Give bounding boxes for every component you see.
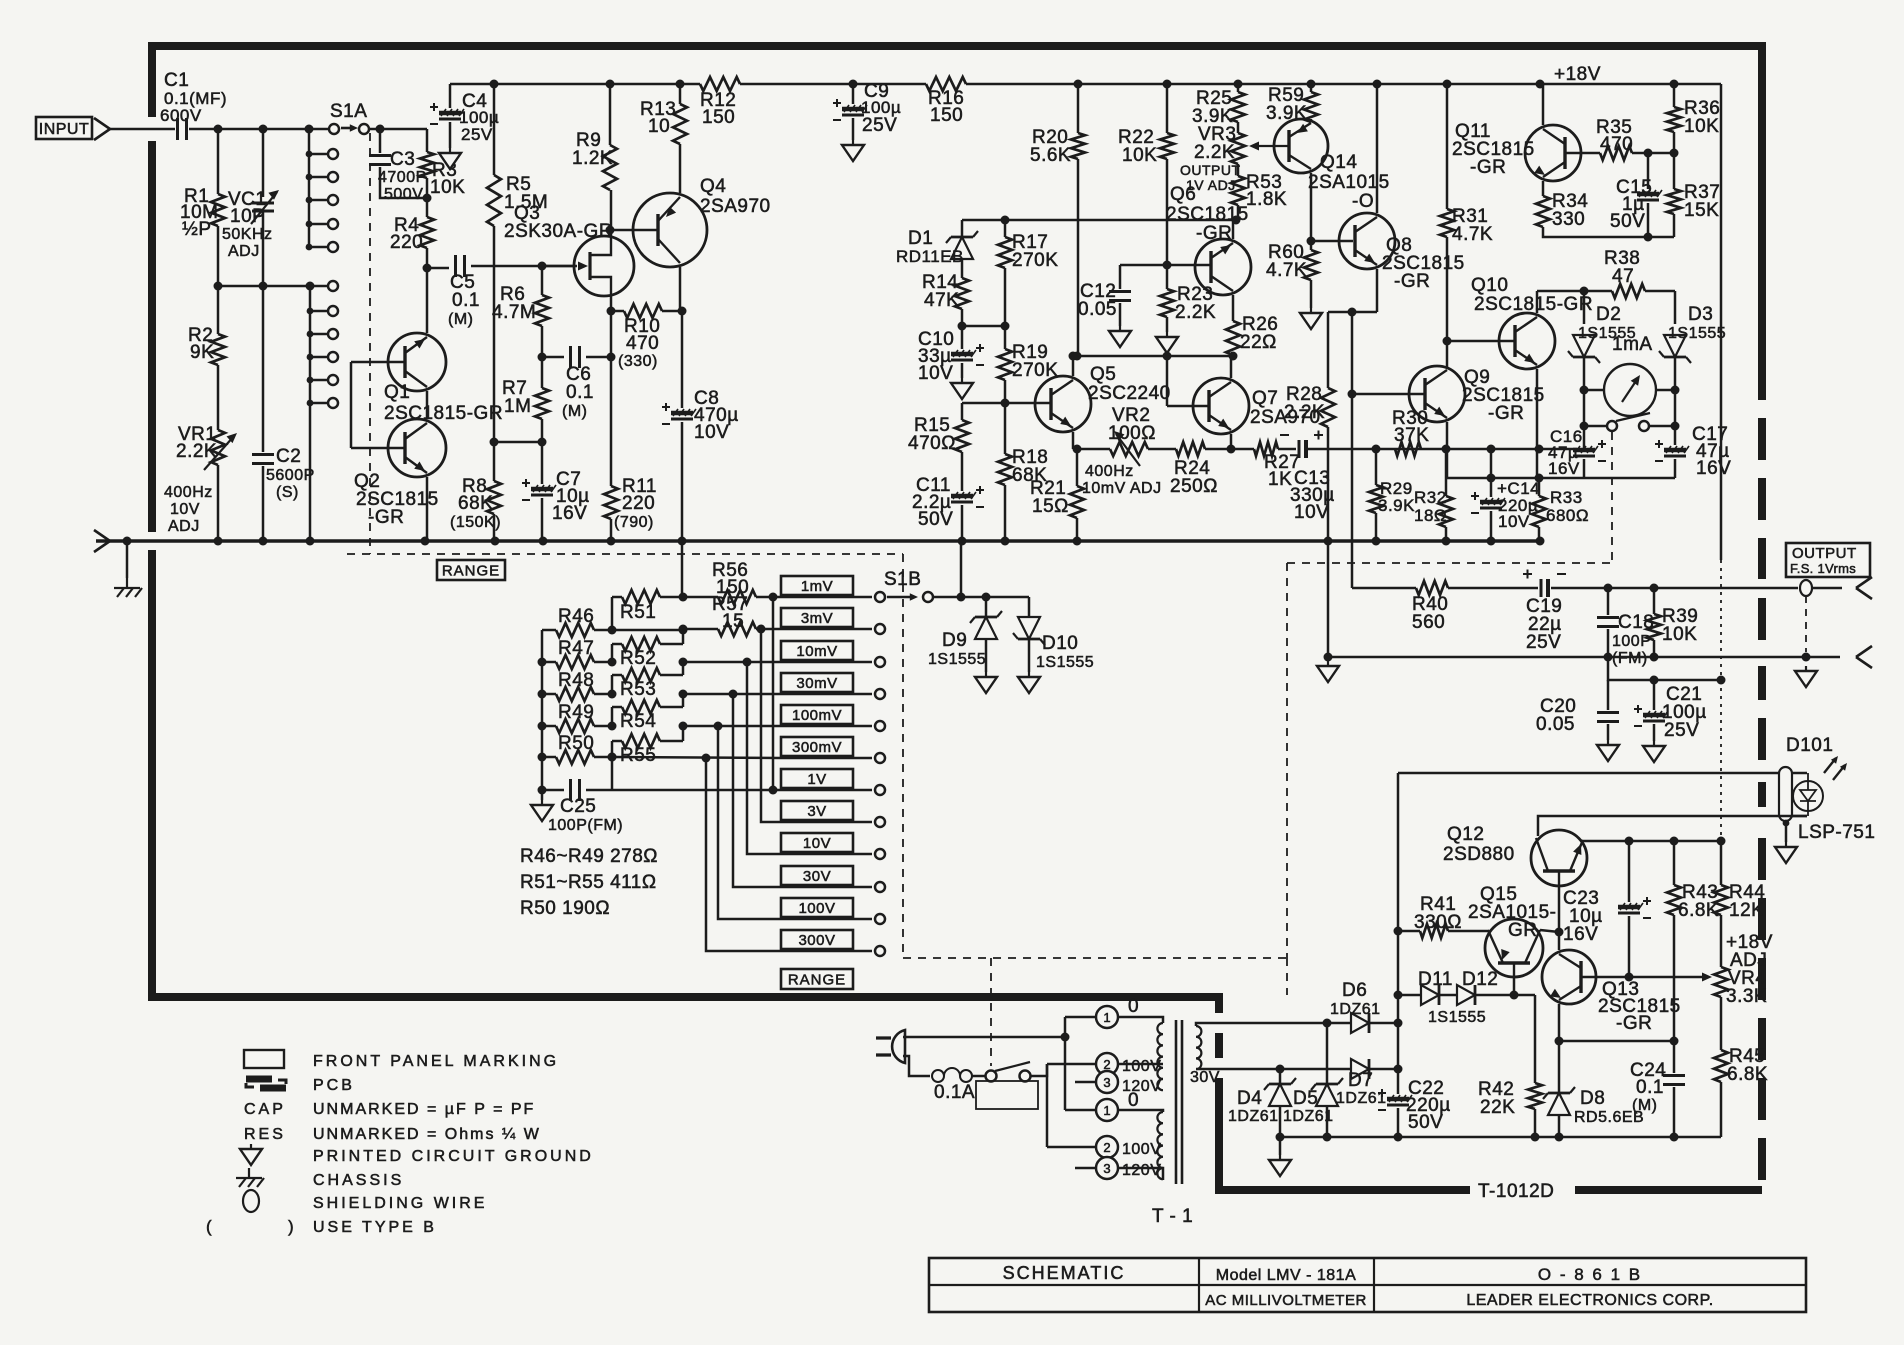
label C8 value [694, 405, 739, 426]
RANGE label lower [781, 969, 853, 989]
junction 10mV stair [743, 658, 752, 667]
note R50 [520, 898, 610, 919]
svg-text:100V: 100V [798, 900, 835, 917]
label VC1 [228, 189, 266, 210]
wire R9 top [609, 84, 612, 145]
wire primary coil links [1118, 1063, 1163, 1066]
resistor R26 [1226, 321, 1240, 355]
PCB border transformer vertical seg3 [1215, 1078, 1223, 1194]
junction +18V bus x680 [676, 80, 685, 89]
svg-text:-GR: -GR [1488, 403, 1524, 424]
label R10 alt [618, 353, 658, 370]
svg-text:4.7K: 4.7K [1452, 224, 1493, 245]
legend CAP text [313, 1101, 535, 1118]
svg-text:16V: 16V [1563, 924, 1598, 945]
label C18 [1618, 612, 1654, 633]
junction +18V bus x494 [490, 80, 499, 89]
label R34 value [1552, 209, 1585, 230]
svg-text:½P: ½P [182, 219, 212, 240]
svg-text:SCHEMATIC: SCHEMATIC [1003, 1263, 1126, 1283]
resistor R35 [1600, 146, 1632, 160]
capacitor C6 [571, 346, 580, 368]
label R41 value [1414, 912, 1462, 933]
printed circuit ground C10 [951, 378, 973, 399]
power switch contact L [986, 1071, 997, 1082]
wire R22 column [1166, 84, 1169, 133]
label C22 value [1406, 1095, 1451, 1116]
+18V bus left part [450, 83, 700, 86]
label T-1012D [1478, 1181, 1554, 1202]
label Q15 [1480, 884, 1517, 905]
capacitor C3 [369, 156, 391, 165]
label C18 note [1612, 650, 1648, 667]
resistor R40 [1416, 581, 1448, 595]
label OUTPUT [1792, 545, 1857, 562]
label Q13 type [1598, 996, 1681, 1017]
transistor Q1 [388, 333, 446, 391]
svg-text:50V: 50V [1610, 211, 1645, 232]
wire D4 to rail [1279, 1106, 1282, 1137]
label R22 value [1122, 145, 1157, 166]
svg-text:D7: D7 [1348, 1070, 1373, 1091]
label R17 value [1012, 250, 1058, 271]
resistor R3 [420, 152, 434, 178]
transformer tap 2 upper [1096, 1053, 1118, 1075]
wire C22 column [1397, 1069, 1400, 1094]
S1B contact 1V [875, 785, 885, 795]
wire 1mV line [683, 596, 718, 599]
wire R14 to node [961, 309, 964, 326]
label R3 value [430, 177, 465, 198]
svg-text:D9: D9 [942, 630, 967, 651]
label R8 value [458, 493, 493, 514]
resistor R12 [700, 77, 740, 91]
label T-1 [1152, 1206, 1193, 1227]
wire S1A to C3 node [370, 128, 427, 131]
wire 326 row [962, 325, 1005, 328]
svg-text:1K: 1K [1268, 469, 1292, 490]
svg-text:S1A: S1A [330, 101, 367, 122]
svg-text:6.8K: 6.8K [1727, 1064, 1768, 1085]
RANGE label upper [437, 560, 505, 580]
svg-text:T-1012D: T-1012D [1478, 1181, 1554, 1202]
resistor R4 [420, 217, 434, 248]
wire D10 to gnd [1028, 639, 1031, 672]
label C8 [694, 388, 719, 409]
wire R18 to ground [1004, 485, 1007, 541]
junction rail D8 [1555, 1133, 1564, 1142]
capacitor C7 [522, 479, 556, 500]
svg-text:(M): (M) [448, 311, 473, 328]
wire R4 to node [426, 248, 429, 268]
label VR2 [1112, 405, 1150, 426]
label R8 alt [450, 514, 501, 531]
diode D6 [1351, 1013, 1369, 1033]
label R19 value [1012, 360, 1058, 381]
junction ground bus x495 [491, 537, 500, 546]
svg-text:10P: 10P [230, 206, 265, 227]
svg-text:16V: 16V [552, 503, 587, 524]
label C12 value [1078, 299, 1117, 320]
legend paren close [288, 1217, 294, 1236]
S1B wiper contact [923, 592, 933, 602]
label R54 [620, 711, 656, 732]
wire Q1-Q2 base rail [350, 362, 353, 448]
wire D10 column [1028, 597, 1031, 617]
wire attenuator feed [681, 541, 684, 597]
junction R3 C3 [423, 194, 432, 203]
junction rail y694 [538, 690, 547, 699]
wire R19 wires [1004, 326, 1007, 349]
power switch wiper [995, 1062, 1030, 1071]
svg-text:(150K): (150K) [450, 514, 501, 531]
label R25 value [1192, 106, 1233, 127]
svg-text:Model LMV - 181A: Model LMV - 181A [1216, 1267, 1357, 1284]
wire S1A lower contacts rail [309, 286, 312, 541]
wire R21 to ground [1076, 518, 1079, 541]
capacitor C11 [951, 486, 984, 507]
wire D12 to R42 [1475, 994, 1535, 997]
resistor R36 [1667, 107, 1681, 132]
label C14 voltage [1498, 512, 1530, 531]
junction R52 left [608, 658, 617, 667]
label R29 [1380, 479, 1413, 498]
junction rail y757 [538, 753, 547, 762]
capacitor C23 [1618, 897, 1651, 918]
wire R11 to ground [610, 519, 613, 541]
svg-text:2SD880: 2SD880 [1443, 844, 1515, 865]
label R35 [1596, 117, 1632, 138]
wire R6 to C6 node [541, 326, 544, 357]
wire C20 column [1607, 680, 1610, 710]
label Q4 [700, 176, 726, 197]
junction R35 C15 [1644, 149, 1653, 158]
wire C22 to rail [1397, 1108, 1400, 1137]
svg-text:16V: 16V [1696, 458, 1731, 479]
printed circuit ground C9 [842, 140, 864, 161]
junction +18V bus x1078 [1074, 80, 1083, 89]
dashed power switch gang [990, 958, 992, 1066]
svg-text:300mV: 300mV [792, 739, 842, 756]
label C22 voltage [1408, 1112, 1443, 1133]
wire 449 row e [1307, 448, 1577, 451]
label C7 voltage [552, 503, 587, 524]
wire 449 row a [1077, 448, 1110, 451]
svg-text:470: 470 [1600, 134, 1633, 155]
wire 300V to contact [781, 950, 872, 953]
svg-text:1.8K: 1.8K [1246, 189, 1287, 210]
junction input line R1 [214, 125, 223, 134]
S1A contact l6 [328, 398, 338, 408]
VR2 wiper arrow [1114, 431, 1140, 466]
wire R55 right riser [682, 726, 685, 741]
wire S1A contact u2 stub [309, 176, 327, 179]
transistor Q15 [1485, 919, 1543, 977]
svg-text:D2: D2 [1596, 304, 1621, 325]
svg-text:25V: 25V [1664, 720, 1699, 741]
wire C14 column [1490, 449, 1493, 497]
wire C18 column [1607, 588, 1610, 615]
junction +18V bus x1540 [1536, 80, 1545, 89]
junction ground bus x1540 [1536, 537, 1545, 546]
resistor R1 [211, 194, 225, 226]
svg-text:2: 2 [1103, 1140, 1110, 1155]
wire secondary top diode [1327, 1022, 1351, 1025]
junction 449 R29 [1372, 445, 1381, 454]
junction S1A stub l3 [307, 331, 314, 338]
stair 100mV-100V [718, 726, 781, 919]
wire Q1 base [351, 361, 405, 364]
svg-text:2.2K: 2.2K [1194, 142, 1235, 163]
wire D11 D12 row a [1398, 994, 1421, 997]
svg-text:-O: -O [1352, 191, 1374, 212]
wire fuse to switch [972, 1075, 985, 1078]
label VR4 head [1726, 932, 1773, 953]
junction C22 node [1394, 1065, 1403, 1074]
junction C23 Q13 base [1625, 973, 1634, 982]
title block div2 [1373, 1258, 1375, 1312]
svg-text:22K: 22K [1480, 1097, 1515, 1118]
svg-text:1S1555: 1S1555 [1668, 325, 1726, 342]
label R45 [1729, 1046, 1765, 1067]
label C3 voltage [384, 186, 423, 203]
label R4 [394, 215, 419, 236]
capacitor C4 [430, 103, 464, 124]
label R6 value [492, 302, 536, 323]
resistor R53 [1231, 176, 1245, 205]
resistor R32 [1439, 496, 1453, 527]
junction ground bus x682 [678, 537, 687, 546]
S1B contact 30mV [875, 689, 885, 699]
svg-text:3: 3 [1103, 1161, 1110, 1176]
junction row x1721 [1717, 676, 1726, 685]
transistor Q10 [1499, 313, 1555, 369]
transformer tap 1 upper [1096, 1006, 1118, 1028]
diode D12 [1457, 985, 1475, 1005]
wire Q9 collector [1446, 341, 1449, 367]
label R7 [502, 378, 527, 399]
svg-text:PRINTED CIRCUIT GROUND: PRINTED CIRCUIT GROUND [313, 1148, 594, 1165]
junction S1A stub l4 [307, 354, 314, 361]
dashed meter gang down [1286, 563, 1288, 958]
label C16 value [1548, 443, 1578, 462]
label R50 [558, 733, 594, 754]
label C21 voltage [1664, 720, 1699, 741]
resistor R22 [1160, 133, 1174, 159]
label C23 value [1569, 906, 1603, 927]
junction input line VC1 [259, 125, 268, 134]
input connector chevron [94, 118, 110, 140]
title drawing number [1538, 1265, 1642, 1284]
label R51 [620, 602, 656, 623]
wire C2 to ground [262, 466, 265, 541]
wire R46 row to 3mV [612, 629, 683, 630]
wire Q3 drain [610, 190, 613, 236]
wire 312 row [1328, 311, 1377, 314]
wire plug top [903, 1036, 1065, 1039]
resistor R41 [1420, 924, 1448, 938]
wire ladder left rail [541, 630, 544, 790]
svg-text:AC MILLIVOLTMETER: AC MILLIVOLTMETER [1205, 1292, 1367, 1309]
label Q11 [1455, 121, 1491, 142]
junction +18V bus x1311 [1307, 80, 1316, 89]
label R4 value [390, 232, 423, 253]
wire R23 column [1166, 265, 1169, 289]
wire rail to gnd [541, 790, 544, 800]
VR1 wiper arrow [204, 433, 237, 470]
wire R31 to Q10 base [1446, 237, 1449, 341]
wire R50 to riser [594, 756, 612, 759]
svg-text:T - 1: T - 1 [1152, 1206, 1193, 1227]
S1A contact l2 [328, 306, 338, 316]
junction ground bus x543 [539, 537, 548, 546]
resistor R51 [622, 590, 660, 604]
junction R20 356 [1073, 352, 1082, 361]
label R37 [1684, 182, 1720, 203]
label R30 value [1394, 425, 1429, 446]
svg-text:10V: 10V [1294, 502, 1329, 523]
wire R3 to node [426, 178, 429, 217]
junction Q9 base [1348, 390, 1357, 399]
wire R52 left riser [612, 643, 622, 646]
printed circuit ground output [1795, 666, 1817, 687]
label R13 [640, 99, 676, 120]
junction 1mV feed [679, 593, 688, 602]
wire S1A contact l2 stub [310, 310, 327, 313]
junction +18V bus x1238 [1234, 80, 1243, 89]
label C19 [1526, 596, 1562, 617]
svg-text:1: 1 [1103, 1103, 1110, 1118]
INPUT front panel label [36, 117, 92, 139]
transistor Q13 [1542, 950, 1596, 1004]
svg-text:5.6K: 5.6K [1030, 145, 1071, 166]
wire secondary bottom [1196, 1068, 1280, 1071]
svg-text:R33: R33 [1550, 488, 1583, 507]
label C3 [390, 149, 415, 170]
wire R41 row [1398, 930, 1420, 933]
svg-text:C1: C1 [164, 70, 189, 91]
svg-text:D4: D4 [1237, 1088, 1262, 1109]
wire C6 row right [586, 356, 611, 359]
svg-text:D8: D8 [1580, 1088, 1605, 1109]
junction Q3 source R10 [607, 307, 616, 316]
svg-text:25V: 25V [862, 115, 897, 136]
label Q1 type [384, 403, 503, 424]
svg-text:0: 0 [1128, 1090, 1139, 1111]
PCB border top edge [152, 42, 1762, 50]
label C24 [1630, 1060, 1666, 1081]
wire Q13 emitter line [1559, 1004, 1674, 1041]
wire S1A contact u4 stub [309, 223, 327, 226]
svg-text:R55: R55 [620, 745, 656, 766]
wire C23 lower [1628, 916, 1631, 977]
svg-text:C3: C3 [390, 149, 415, 170]
junction outlow C18 [1604, 653, 1613, 662]
label R39 value [1662, 624, 1697, 645]
wire 449 row c [1205, 448, 1254, 451]
label R23 [1177, 284, 1213, 305]
wire C5 row [427, 267, 449, 270]
capacitor C9 [833, 99, 867, 120]
junction 1V stair [769, 786, 778, 795]
junction 3mV [679, 625, 688, 634]
resistor R49 [556, 719, 594, 733]
wire Q12 base down [1558, 886, 1561, 932]
wire C8 to ground [681, 422, 684, 541]
junction ground bus x1491 [1487, 537, 1496, 546]
wire R13 to Q4 [679, 144, 682, 193]
label tap120 lower [1122, 1162, 1161, 1179]
wire +18V feed upper [1720, 84, 1723, 560]
wire D101 top link [1779, 772, 1807, 775]
wire S1A contact u3 stub [309, 199, 327, 202]
diode D5 [1311, 1078, 1343, 1106]
svg-text:R48: R48 [558, 670, 594, 691]
wire C8 column [681, 311, 684, 408]
wire Q5 base row [962, 402, 1051, 405]
label D9 type [928, 651, 986, 668]
junction 1041 D8 [1555, 1037, 1564, 1046]
label R24 value [1170, 476, 1218, 497]
label Q2 type2 [368, 507, 404, 528]
resistor R48 [556, 687, 594, 701]
wire output low line [1328, 656, 1840, 659]
wire S1A contact u5 stub [309, 246, 327, 249]
wire C16 bottom [1583, 459, 1586, 478]
label C6 value [566, 382, 594, 403]
wire C5 to R6 [471, 265, 577, 268]
wire R51 right [660, 596, 683, 599]
junction S1A stub u1 [306, 151, 313, 158]
wire 10mV line [683, 661, 781, 664]
transistor Q11 [1525, 125, 1581, 181]
svg-text:+18V: +18V [1554, 64, 1601, 85]
svg-text:(330): (330) [618, 353, 658, 370]
junction raw 931 [1394, 927, 1403, 936]
label C17 value [1696, 441, 1730, 462]
svg-text:1S1555: 1S1555 [1428, 1009, 1486, 1026]
transformer core line 2 [1181, 1020, 1184, 1184]
label Q11 type2 [1470, 157, 1506, 178]
svg-text:4.7M: 4.7M [492, 302, 536, 323]
svg-text:D10: D10 [1042, 633, 1078, 654]
svg-text:68K: 68K [458, 493, 493, 514]
label Q2 [354, 471, 380, 492]
label R38 value [1612, 266, 1634, 287]
wire Q1 emitter to Q2 collector [426, 391, 429, 419]
label R25 [1196, 88, 1232, 109]
transistor Q5 [1035, 376, 1091, 432]
resistor R19 [998, 349, 1012, 380]
svg-text:1S1555: 1S1555 [928, 651, 986, 668]
svg-text:F.S. 1Vrms: F.S. 1Vrms [1790, 561, 1856, 576]
meter M1 1mA [1604, 364, 1656, 416]
label R9 value [572, 148, 613, 169]
wire R20 to 356 [1077, 159, 1080, 356]
resistor R47 [556, 655, 594, 669]
capacitor C2 [252, 455, 274, 464]
legend shielding symbol [243, 1190, 259, 1212]
diode D2 [1568, 335, 1600, 363]
wire Q4 base [610, 229, 658, 232]
wire 449 row d [1278, 448, 1296, 451]
printed circuit ground C20 [1597, 740, 1619, 761]
svg-text:D1: D1 [908, 228, 933, 249]
label VR3 [1198, 124, 1236, 145]
front panel marking 300V [781, 930, 853, 949]
svg-text:Q10: Q10 [1471, 275, 1508, 296]
junction 449 C14 [1487, 445, 1496, 454]
